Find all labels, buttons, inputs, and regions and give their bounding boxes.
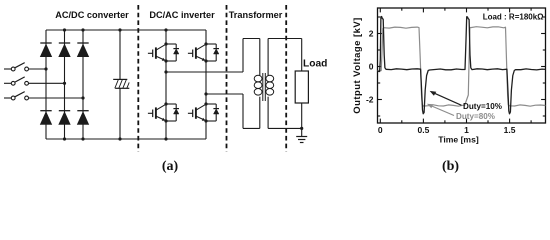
capacitor C1 (hatched plates)	[113, 78, 127, 80]
wire primary bottom staple	[242, 94, 244, 128]
ground	[301, 128, 303, 136]
gate bar	[152, 50, 154, 58]
svg-text:Output Voltage [kV]: Output Voltage [kV]	[352, 17, 363, 114]
junction dots	[164, 42, 167, 45]
transformer T1 secondary winding	[266, 75, 274, 82]
diode D4 (lower)	[40, 110, 51, 112]
annotation arrow Duty=80%	[431, 106, 455, 116]
wire diode branch	[206, 43, 216, 45]
wire collector	[196, 104, 206, 110]
wire secondary bottom	[267, 97, 269, 129]
switch blade	[15, 63, 25, 68]
wire bridge leg 3	[82, 30, 84, 139]
node left-leg mid	[164, 70, 167, 73]
wire inverter right leg	[205, 30, 207, 139]
wire diode branch	[206, 103, 216, 105]
diode D6 (lower)	[77, 110, 88, 112]
wire gate stub	[148, 52, 153, 54]
separator dashed line 2	[226, 5, 228, 152]
gate bar	[192, 50, 194, 58]
switch pole contact	[11, 96, 15, 100]
wire emitter	[196, 56, 206, 61]
wire collector	[156, 104, 166, 110]
svg-text:Time [ms]: Time [ms]	[438, 135, 479, 145]
svg-text:Transformer: Transformer	[229, 10, 283, 20]
svg-text:DC/AC inverter: DC/AC inverter	[149, 10, 215, 20]
wire secondary top	[267, 39, 269, 76]
wire collector	[196, 44, 206, 50]
wire input stub	[4, 68, 11, 70]
wire primary top staple	[242, 39, 244, 73]
svg-text:Load: Load	[303, 59, 327, 70]
wire to bridge	[29, 82, 65, 84]
wire gate stub	[188, 112, 193, 114]
node phase junction	[44, 67, 47, 70]
junction dots	[164, 102, 167, 105]
diode D2 (upper)	[59, 42, 70, 44]
svg-text:AC/DC converter: AC/DC converter	[55, 10, 129, 20]
diode D3 (upper)	[77, 42, 88, 44]
wire bridge leg 1	[45, 30, 47, 139]
junction dots	[204, 102, 207, 105]
wire emitter	[156, 116, 166, 121]
switch pole contact	[11, 81, 15, 85]
wire diode branch	[166, 103, 176, 105]
waveform Duty=80% (gray trace)	[378, 27, 546, 107]
wire input stub	[4, 82, 11, 84]
diode	[173, 48, 179, 50]
switch pole contact	[11, 67, 15, 71]
wire DC- bottom rail	[46, 138, 206, 140]
svg-text:Duty=80%: Duty=80%	[456, 112, 495, 121]
chart frame	[378, 8, 546, 123]
node right-leg mid	[204, 92, 207, 95]
annotation arrow Duty=10%	[434, 93, 462, 106]
wire gate stub	[148, 112, 153, 114]
svg-text:Load : R=180kΩ: Load : R=180kΩ	[483, 12, 544, 21]
wire inverter left leg	[165, 30, 167, 139]
body bar	[155, 107, 157, 118]
resistor Load	[295, 71, 308, 103]
wire emitter	[156, 56, 166, 61]
switch throw contact	[25, 96, 29, 100]
transformer T1 core	[262, 73, 264, 101]
body bar	[155, 47, 157, 58]
node ground junction	[300, 127, 303, 130]
wire diode branch	[166, 43, 176, 45]
transformer T1 primary winding	[254, 75, 262, 82]
gate bar	[192, 110, 194, 118]
svg-text:0.5: 0.5	[417, 125, 429, 135]
switch throw contact	[25, 81, 29, 85]
diode D5 (lower)	[59, 110, 70, 112]
wire gate stub	[188, 52, 193, 54]
wire to bridge	[29, 68, 47, 70]
wire collector	[156, 44, 166, 50]
diode	[173, 108, 179, 110]
wire bridge leg 2	[64, 30, 66, 139]
svg-text:(b): (b)	[442, 159, 459, 174]
node phase junction	[63, 82, 66, 85]
wire right-leg output	[206, 93, 243, 95]
y-axis ticks	[378, 33, 382, 35]
node top rail junctions	[63, 28, 66, 31]
svg-text:2: 2	[369, 29, 374, 39]
node phase junction	[81, 96, 84, 99]
wire emitter	[196, 116, 206, 121]
wire DC+ top rail	[46, 29, 206, 31]
gate bar	[152, 110, 154, 118]
svg-text:1.5: 1.5	[504, 125, 516, 135]
x-axis ticks	[379, 119, 381, 123]
svg-text:0: 0	[378, 125, 383, 135]
svg-text:(a): (a)	[162, 159, 179, 174]
diode D1 (upper)	[40, 42, 51, 44]
svg-text:Duty=10%: Duty=10%	[463, 102, 502, 111]
wire to bridge	[29, 97, 84, 99]
node bottom rail junctions	[63, 137, 66, 140]
wire left-leg output	[166, 71, 243, 73]
separator dashed line 3	[285, 5, 287, 152]
diode	[213, 108, 219, 110]
svg-text:-2: -2	[366, 95, 374, 105]
wire DC-link drop	[119, 30, 121, 79]
switch blade	[15, 92, 25, 97]
waveform Duty=10% (dark trace)	[378, 17, 546, 114]
switch blade	[15, 77, 25, 82]
body bar	[195, 47, 197, 58]
wire input stub	[4, 97, 11, 99]
junction dots	[204, 42, 207, 45]
body bar	[195, 107, 197, 118]
switch throw contact	[25, 67, 29, 71]
diode	[213, 48, 219, 50]
separator dashed line 1	[137, 5, 139, 152]
svg-text:0: 0	[369, 62, 374, 72]
